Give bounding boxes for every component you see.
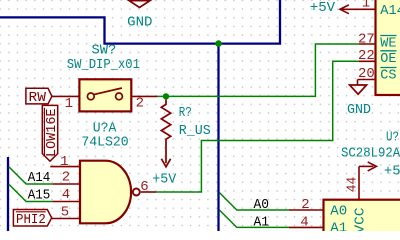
gate input pin 4 [52, 201, 80, 203]
svg-text:44: 44 [344, 177, 360, 193]
switch SW? body (SW_DIP_x01) [79, 79, 131, 111]
svg-text:GND: GND [347, 102, 371, 118]
wire A1 with bus entry [219, 210, 289, 227]
chip pin 22 stub [359, 60, 376, 62]
svg-text:LOW16E: LOW16E [44, 109, 60, 158]
svg-text:1: 1 [362, 0, 370, 11]
NAND gate U?A input pin 1 [50, 166, 80, 168]
svg-text:PHI2: PHI2 [16, 212, 46, 228]
chip pin 20 stub [358, 79, 376, 81]
junction at switch pin 2 / resistor [163, 93, 169, 99]
svg-text:A1: A1 [254, 215, 270, 231]
chip pin 1 line with +5V power arrow [340, 8, 376, 10]
power +5V right arrow at pin 44 [359, 165, 374, 167]
svg-text:2: 2 [301, 197, 309, 213]
chip pin 2 stub [289, 209, 324, 211]
overline of PHI2 [16, 211, 46, 213]
svg-text:CS: CS [380, 68, 396, 84]
svg-text:U?: U? [386, 130, 399, 146]
bus: vertical address bus center [217, 44, 219, 231]
chip U? SC28L92 body (bottom right) [324, 200, 400, 235]
svg-text:RW: RW [29, 90, 47, 106]
switch SW? pin 1 line from RW label [52, 95, 80, 97]
ground GND symbol chip1 [350, 85, 367, 94]
svg-text:27: 27 [358, 31, 375, 47]
svg-text:4: 4 [300, 215, 308, 231]
NAND gate output bubble [133, 189, 140, 196]
svg-text:R?: R? [179, 105, 192, 121]
svg-text:74LS20: 74LS20 [81, 135, 128, 151]
svg-text:1: 1 [60, 154, 68, 170]
gate input pin 5 [52, 218, 80, 220]
resistor R? (R_US) [161, 100, 170, 164]
svg-text:4: 4 [62, 187, 70, 203]
svg-text:A15: A15 [28, 187, 51, 203]
svg-text:+5V: +5V [384, 164, 400, 180]
wire A15 with bus entry [9, 184, 53, 201]
global label PHI2 [13, 210, 51, 227]
svg-text:A0: A0 [330, 203, 347, 219]
chip pin 27 stub [359, 43, 376, 45]
wire WE net: switch to pin 27 [158, 44, 359, 96]
overline of LOW16E [43, 108, 45, 157]
switch SW? pin 2 stub [131, 95, 157, 97]
memory chip A14 body (top right) [376, 0, 400, 95]
svg-text:2: 2 [136, 95, 144, 111]
global label RW [26, 88, 52, 104]
gate output pin 6 stub [141, 191, 156, 193]
junction on bus [215, 40, 222, 47]
svg-text:SW_DIP_x01: SW_DIP_x01 [67, 57, 140, 73]
bus: main bus top-left stepping down [0, 0, 280, 44]
chip pin 44 stub (VCC) [358, 166, 360, 200]
svg-text:+5V: +5V [152, 172, 177, 188]
chip pin 4 stub [289, 226, 324, 228]
svg-text:A0: A0 [254, 197, 270, 213]
svg-text:A1: A1 [330, 221, 347, 231]
global label LOW16E (vertical) [42, 105, 57, 161]
svg-text:R_US: R_US [179, 123, 211, 139]
switch contact right [116, 93, 123, 100]
power +5V below resistor (arrow down) [161, 159, 170, 167]
svg-text:+5V: +5V [310, 0, 336, 16]
svg-text:20: 20 [358, 66, 375, 82]
svg-text:22: 22 [358, 48, 375, 64]
ground GND top symbol [129, 1, 150, 8]
switch lever [94, 88, 122, 95]
svg-text:VCC: VCC [353, 208, 369, 232]
svg-text:A14: A14 [28, 170, 51, 186]
svg-text:GND: GND [127, 15, 152, 31]
wire A14 with bus entry [9, 167, 53, 184]
gate input pin 2 [52, 183, 80, 185]
svg-text:2: 2 [62, 169, 70, 185]
bus: vertical address bus left [7, 157, 9, 231]
svg-text:6: 6 [140, 179, 148, 195]
NAND gate U?A body (74LS20) [80, 161, 131, 224]
svg-text:5: 5 [61, 204, 69, 220]
wire OE net: gate output to pin 22 [156, 61, 359, 192]
svg-text:OE: OE [380, 51, 396, 67]
wire A0 with bus entry [219, 193, 289, 210]
switch contact left [87, 93, 94, 100]
svg-text:SC28L92A1: SC28L92A1 [341, 145, 400, 161]
svg-text:1: 1 [65, 96, 73, 112]
svg-text:WE: WE [380, 36, 396, 52]
svg-text:A14: A14 [380, 3, 400, 19]
ground stem from pin 20 [357, 80, 359, 86]
